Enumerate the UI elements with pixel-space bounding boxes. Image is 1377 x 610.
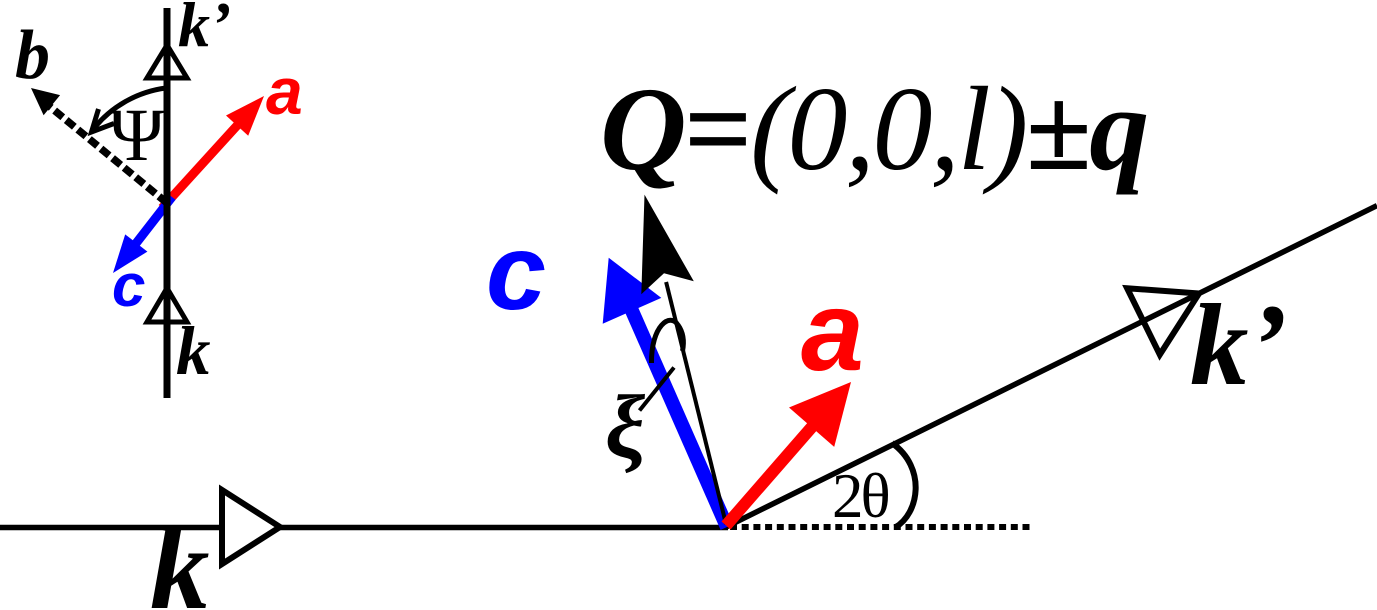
svg-text:k: k	[150, 502, 210, 610]
open arrowhead on scattered beam k'	[1127, 288, 1199, 354]
svg-text:a: a	[801, 268, 864, 394]
inset: open arrowhead k on axis (bottom)	[147, 288, 187, 322]
svg-text:c: c	[486, 211, 546, 332]
vector a (red)	[726, 382, 851, 526]
svg-text:Ψ: Ψ	[109, 94, 165, 177]
vector c (blue)	[603, 258, 727, 527]
arc for scattering angle 2theta	[892, 443, 916, 528]
inset: vertical scattering-vector axis line	[164, 8, 171, 398]
svg-text:c: c	[112, 252, 145, 319]
vector Q (black, thin with stealth head)	[641, 195, 726, 524]
svg-text:ξ: ξ	[605, 378, 645, 477]
scattered beam line k'	[726, 206, 1377, 527]
open arrowhead on incident beam k	[222, 490, 280, 564]
inset: arc for angle Psi with arrowhead	[92, 88, 167, 132]
svg-text:Q=(0,0,l)±q: Q=(0,0,l)±q	[600, 62, 1147, 195]
inset: dashed vector b	[31, 88, 167, 203]
dotted baseline continuation	[730, 524, 1032, 530]
svg-text:k’: k’	[1190, 281, 1287, 410]
inset: vector a (red)	[162, 96, 264, 208]
small arc for angle xi between c and Q	[651, 320, 683, 363]
svg-text:2θ: 2θ	[832, 461, 889, 531]
incident beam line k	[0, 525, 728, 531]
svg-text:a: a	[266, 54, 303, 128]
leader line from xi label to arc	[640, 368, 675, 411]
svg-text:b: b	[15, 17, 50, 94]
svg-text:k’: k’	[178, 0, 231, 60]
inset: open arrowhead k' on axis (top)	[147, 45, 187, 78]
inset: vector c (blue)	[113, 197, 172, 273]
